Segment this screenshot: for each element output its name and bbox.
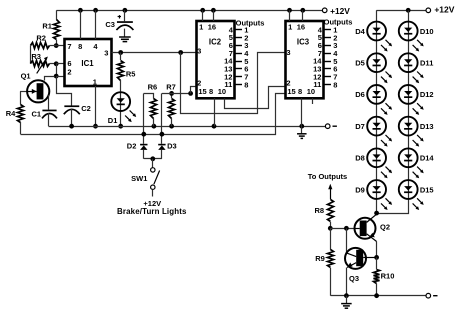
- svg-text:+12V: +12V: [434, 5, 454, 15]
- capacitor C1: [42, 110, 56, 112]
- switch SW1: [152, 159, 154, 168]
- wire IC2 pin1 to rail: [202, 10, 204, 21]
- svg-text:R7: R7: [166, 83, 176, 92]
- wire top +12V rail (left section): [57, 10, 323, 12]
- svg-text:IC3: IC3: [297, 37, 310, 46]
- wire R2 left to R3 left: [30, 46, 32, 64]
- wire top +12V rail (LED section): [377, 10, 426, 12]
- svg-text:D12: D12: [420, 90, 434, 99]
- LED D9: [367, 180, 386, 199]
- wire pin6 to pin2 tie: [56, 64, 58, 76]
- wire IC3 pin10 stub: [312, 98, 314, 104]
- svg-text:R6: R6: [148, 83, 158, 92]
- capacitor C2: [64, 105, 79, 107]
- svg-text:R4: R4: [6, 109, 16, 118]
- node junction LED columns to Q2 collector: [374, 211, 379, 216]
- wire IC2 pin3 clock input: [181, 53, 286, 114]
- svg-text:Outputs: Outputs: [236, 18, 265, 27]
- wire IC3 pin8 to ground: [301, 98, 303, 126]
- node junction switch feed: [150, 156, 155, 161]
- svg-text:D13: D13: [420, 122, 434, 131]
- svg-text:C3: C3: [105, 20, 115, 29]
- IC U3 4017 counter IC3: [286, 21, 324, 98]
- node junction R7/D3/IC2 pin2 wire: [169, 91, 174, 96]
- LED D4: [367, 22, 386, 41]
- node junction IC3 pin8/ground rail: [299, 124, 304, 129]
- ground symbol below IC3: [301, 126, 303, 133]
- node junction pin1/ground rail: [93, 124, 98, 129]
- wire Q2 emitter down: [376, 242, 378, 258]
- svg-text:SW1: SW1: [131, 174, 147, 183]
- wire IC3 output pin stub 8: [324, 84, 332, 86]
- wire IC2 output pin stub 1: [235, 29, 243, 31]
- resistor R6: [144, 94, 154, 99]
- IC U2 4017 counter IC2: [197, 21, 235, 98]
- svg-text:IC1: IC1: [81, 59, 94, 68]
- svg-text:2: 2: [197, 78, 201, 87]
- svg-text:R1: R1: [42, 21, 52, 30]
- wire IC1 pin3 output bus: [112, 52, 197, 54]
- svg-text:D15: D15: [420, 185, 434, 194]
- svg-text:R5: R5: [126, 70, 136, 79]
- ground terminal minus (middle right): [325, 124, 330, 129]
- LED D5: [367, 53, 386, 72]
- wire IC3 pin16 to rail: [302, 10, 304, 21]
- node junction R3/IC1 pin6: [54, 61, 59, 66]
- svg-text:1: 1: [93, 77, 97, 86]
- node junction Q3 emitter/bottom rail: [344, 293, 349, 298]
- svg-text:IC2: IC2: [209, 37, 222, 46]
- svg-text:C1: C1: [32, 109, 42, 118]
- diode D2: [143, 94, 145, 144]
- node junction D3 on brake rail: [160, 132, 165, 137]
- wire ground rail (horizontal): [49, 126, 326, 128]
- LED D7: [367, 117, 386, 136]
- wire IC1 pin2: [56, 76, 64, 78]
- svg-text:R10: R10: [381, 271, 395, 280]
- svg-text:11: 11: [313, 80, 321, 89]
- svg-text:R3: R3: [31, 52, 41, 61]
- svg-text:D4: D4: [355, 27, 365, 36]
- wire IC3 output pin stub 1: [324, 29, 332, 31]
- wire IC3 output pin stub 4: [324, 53, 332, 55]
- resistor R5: [120, 53, 122, 61]
- IC U1 555 timer IC1: [65, 39, 112, 86]
- node junction R8/R9/Q2 base: [328, 226, 333, 231]
- node junction R5 on pin3 bus: [118, 50, 123, 55]
- arrow to outputs: [330, 188, 332, 200]
- svg-text:D1: D1: [108, 116, 118, 125]
- wire Q3 emitter down: [346, 268, 348, 296]
- node junction Q2 emitter/Q3 collector/R10: [374, 255, 379, 260]
- svg-text:3: 3: [197, 46, 201, 55]
- svg-text:C2: C2: [81, 104, 91, 113]
- wire Q2 base: [330, 228, 353, 230]
- svg-text:2: 2: [67, 68, 71, 77]
- wire D3-R7-IC2 pin2: [162, 93, 191, 95]
- resistor R2: [31, 43, 50, 49]
- svg-text:2: 2: [286, 78, 290, 87]
- svg-text:D6: D6: [355, 90, 365, 99]
- node junction R10/bottom rail: [374, 293, 379, 298]
- svg-text:Q3: Q3: [349, 274, 359, 283]
- power terminal +12V (left): [322, 8, 327, 13]
- wire right LED column: [377, 11, 409, 214]
- wire D2-D3 cathode join: [144, 158, 162, 160]
- svg-text:To Outputs: To Outputs: [308, 172, 347, 181]
- wire IC1 pin8 to rail: [80, 10, 82, 39]
- svg-text:8: 8: [209, 87, 213, 96]
- svg-text:1: 1: [199, 23, 203, 32]
- svg-text:D9: D9: [355, 185, 365, 194]
- wire IC3 output pin stub 6: [324, 68, 332, 70]
- potentiometer R3: [31, 61, 50, 67]
- diode D3: [161, 93, 163, 143]
- svg-text:R2: R2: [36, 34, 46, 43]
- svg-text:D10: D10: [420, 27, 434, 36]
- svg-text:Q1: Q1: [21, 72, 31, 81]
- svg-text:+12V: +12V: [330, 6, 350, 16]
- node junction right LED column to rail: [406, 8, 411, 13]
- wire IC2 output pin stub 2: [235, 37, 243, 39]
- svg-text:D7: D7: [355, 122, 365, 131]
- node junction D1 to ground rail: [118, 124, 123, 129]
- ground symbol below C3: [124, 29, 126, 37]
- svg-text:11: 11: [224, 80, 232, 89]
- svg-text:D2: D2: [127, 141, 137, 150]
- capacitor C3: [124, 10, 126, 21]
- wire IC1 pin1 to ground rail: [95, 86, 97, 126]
- svg-text:D3: D3: [167, 141, 177, 150]
- wire IC2 pin8 to ground: [214, 98, 216, 126]
- node junction IC2 pin1 to rail: [200, 8, 205, 13]
- wire IC2 pin16 to rail: [213, 10, 215, 21]
- wire IC2 output pin stub 5: [235, 61, 243, 63]
- wire IC2 output pin stub 6: [235, 68, 243, 70]
- svg-text:Brake/Turn Lights: Brake/Turn Lights: [117, 207, 187, 216]
- LED D8: [367, 148, 386, 167]
- svg-text:8: 8: [333, 80, 337, 89]
- svg-text:R8: R8: [315, 206, 325, 215]
- svg-text:Q2: Q2: [380, 222, 390, 231]
- wire bottom ground rail (right): [331, 295, 426, 297]
- node junction IC1 pin2 / Q1 collector: [54, 74, 59, 79]
- wire IC2 output pin stub 7: [235, 76, 243, 78]
- node junction R1/R2/IC1 pin7: [54, 43, 59, 48]
- wire left LED column: [376, 10, 378, 213]
- svg-text:R9: R9: [315, 254, 325, 263]
- node junction IC2 pin8/ground rail: [212, 124, 217, 129]
- LED D13: [399, 117, 418, 136]
- LED D11: [399, 53, 418, 72]
- node junction IC3 pin16 to rail: [300, 8, 305, 13]
- LED D15: [399, 180, 418, 199]
- node junction IC3 pin1 to rail: [287, 8, 292, 13]
- LED D14: [399, 148, 418, 167]
- svg-text:Outputs: Outputs: [324, 18, 353, 27]
- svg-text:3: 3: [104, 49, 108, 58]
- node junction IC1 pin4 to rail: [93, 8, 98, 13]
- node junction IC2 clock drop on pin3 bus: [178, 50, 183, 55]
- wire IC2 output pin stub 3: [235, 45, 243, 47]
- resistor R8: [328, 200, 334, 222]
- node junction D2 on brake rail: [141, 132, 146, 137]
- svg-text:16: 16: [208, 23, 216, 32]
- transistor Q1: [20, 91, 32, 93]
- svg-text:8: 8: [244, 80, 248, 89]
- node junction C2/ground rail: [69, 124, 74, 129]
- resistor R7: [169, 99, 175, 119]
- svg-text:D11: D11: [420, 59, 433, 68]
- svg-text:D14: D14: [420, 154, 435, 163]
- resistor R1: [56, 10, 58, 19]
- wire Q1 emitter to C1: [48, 95, 50, 110]
- wire IC2 pin10 carry to IC3 pin2: [225, 87, 286, 109]
- wire IC3 output pin stub 2: [324, 37, 332, 39]
- node junction Q3 base takeoff: [344, 226, 349, 231]
- node junction R7/ground rail: [169, 124, 174, 129]
- resistor R10: [376, 257, 378, 269]
- ground symbol bottom right: [346, 296, 348, 304]
- wire IC1 pin7: [56, 45, 64, 47]
- resistor R9: [330, 228, 332, 250]
- wire IC1 pin4 to rail: [95, 10, 97, 39]
- LED D1: [120, 91, 122, 126]
- node junction C3 to rail: [123, 8, 128, 13]
- svg-text:8: 8: [298, 87, 302, 96]
- svg-text:15: 15: [198, 87, 206, 96]
- ground terminal minus (bottom right): [426, 293, 431, 298]
- svg-text:1: 1: [288, 23, 292, 32]
- wire IC1 pin6: [56, 63, 64, 65]
- wire pin2 junction down to C2: [57, 77, 72, 106]
- wire IC2 output pin stub 4: [235, 53, 243, 55]
- wire brake feed rail (lower horizontal): [21, 94, 286, 135]
- power terminal +12V (right): [426, 8, 431, 13]
- wire IC2 output pin stub 8: [235, 84, 243, 86]
- node junction IC2 pin2 drop: [188, 91, 193, 96]
- resistor R4: [20, 91, 22, 104]
- LED D12: [399, 85, 418, 104]
- wire Q1 collector to pin2 junction: [45, 77, 55, 81]
- transistor Q2: [355, 218, 376, 239]
- node junction IC1 pin8 to rail: [78, 8, 83, 13]
- svg-text:3: 3: [286, 48, 290, 57]
- wire IC3 pin1 to rail: [289, 10, 291, 21]
- wire IC2 pin2 elbow: [191, 87, 197, 94]
- wire IC3 output pin stub 5: [324, 61, 332, 63]
- wire IC3 output pin stub 7: [324, 76, 332, 78]
- LED D6: [367, 85, 386, 104]
- svg-text:15: 15: [287, 87, 295, 96]
- svg-text:7: 7: [67, 42, 71, 51]
- node junction R6/ground rail: [152, 124, 157, 129]
- svg-text:8: 8: [78, 42, 82, 51]
- LED D10: [399, 22, 418, 41]
- svg-text:D5: D5: [355, 59, 365, 68]
- transistor Q3: [346, 228, 348, 253]
- wire IC3 output pin stub 3: [324, 45, 332, 47]
- node junction IC2 pin16 to rail: [211, 8, 216, 13]
- svg-text:D8: D8: [355, 154, 365, 163]
- svg-text:16: 16: [297, 23, 305, 32]
